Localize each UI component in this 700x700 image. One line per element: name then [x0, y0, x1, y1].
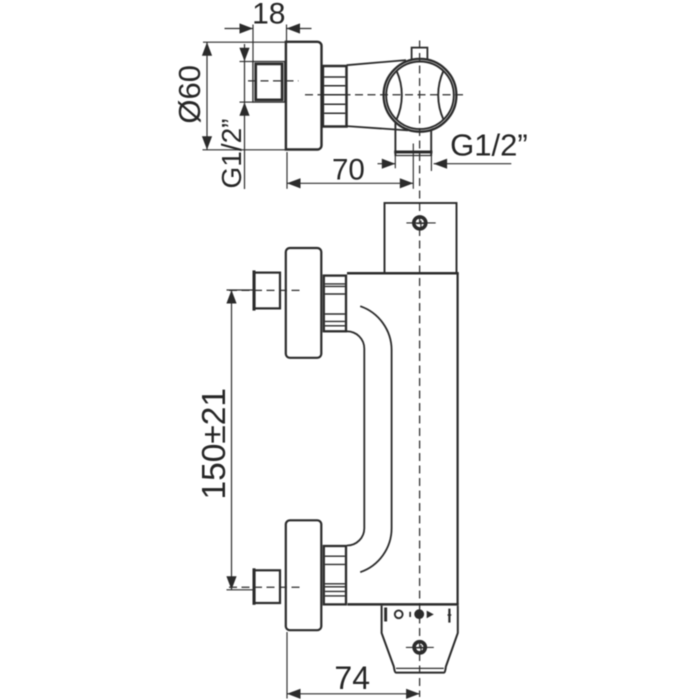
svg-text:150±21: 150±21 [196, 388, 233, 500]
svg-text:70: 70 [332, 154, 365, 187]
svg-text:18: 18 [252, 0, 285, 30]
svg-text:G1/2”: G1/2” [450, 128, 528, 163]
svg-text:Ø60: Ø60 [172, 65, 207, 124]
svg-text:G1/2”: G1/2” [216, 118, 247, 188]
svg-text:74: 74 [334, 660, 370, 696]
